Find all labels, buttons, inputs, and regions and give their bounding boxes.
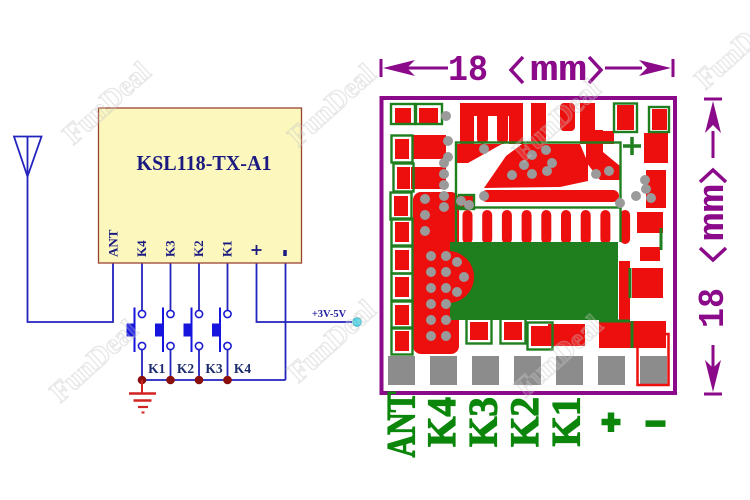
- svg-text:K4: K4: [134, 240, 149, 257]
- svg-text:K3: K3: [461, 397, 506, 447]
- svg-text:K2: K2: [502, 397, 547, 447]
- svg-text:K1: K1: [544, 397, 589, 447]
- svg-text:K2: K2: [177, 361, 195, 376]
- svg-text:K3: K3: [163, 240, 178, 257]
- svg-text:ANT: ANT: [379, 391, 424, 457]
- svg-text:K3: K3: [205, 361, 223, 376]
- svg-text:K1: K1: [148, 361, 166, 376]
- svg-text:K2: K2: [191, 240, 206, 257]
- svg-text:18: 18: [448, 50, 488, 91]
- svg-text:18: 18: [693, 288, 734, 328]
- svg-text:ANT: ANT: [106, 229, 121, 257]
- svg-text:K4: K4: [419, 397, 464, 447]
- svg-text:KSL118-TX-A1: KSL118-TX-A1: [137, 151, 272, 175]
- svg-text:mm: mm: [693, 184, 734, 241]
- svg-text:K1: K1: [220, 240, 235, 257]
- svg-text:K4: K4: [234, 361, 252, 376]
